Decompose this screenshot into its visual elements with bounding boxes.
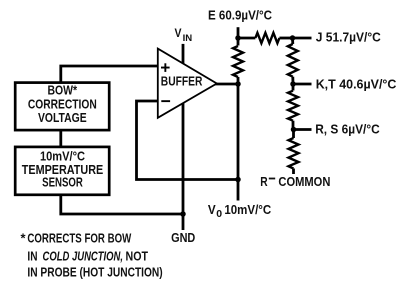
svg-text:CORRECTS FOR BOW: CORRECTS FOR BOW — [27, 231, 132, 246]
svg-text:SENSOR: SENSOR — [42, 174, 83, 189]
svg-text:BOW*: BOW* — [47, 82, 77, 97]
svg-text:COMMON: COMMON — [278, 174, 330, 189]
svg-text:R: R — [260, 174, 268, 189]
svg-text:NOT: NOT — [126, 248, 149, 263]
svg-text:J 51.7µV/°C: J 51.7µV/°C — [316, 30, 382, 45]
svg-text:V: V — [175, 28, 182, 40]
svg-text:V: V — [208, 202, 216, 217]
svg-text:R, S 6µV/°C: R, S 6µV/°C — [315, 122, 380, 137]
svg-text:GND: GND — [171, 230, 195, 245]
svg-text:VOLTAGE: VOLTAGE — [38, 110, 87, 125]
svg-text:E 60.9µV/°C: E 60.9µV/°C — [208, 7, 273, 22]
svg-text:BUFFER: BUFFER — [161, 74, 203, 89]
svg-text:K,T 40.6µV/°C: K,T 40.6µV/°C — [316, 76, 397, 91]
svg-text:10mV/°C: 10mV/°C — [224, 202, 271, 217]
svg-text:IN: IN — [27, 248, 37, 263]
svg-text:*: * — [21, 231, 26, 246]
svg-text:0: 0 — [216, 208, 222, 220]
svg-text:COLD JUNCTION,: COLD JUNCTION, — [43, 248, 124, 263]
svg-text:IN: IN — [183, 33, 193, 43]
svg-text:IN PROBE (HOT JUNCTION): IN PROBE (HOT JUNCTION) — [27, 265, 162, 280]
